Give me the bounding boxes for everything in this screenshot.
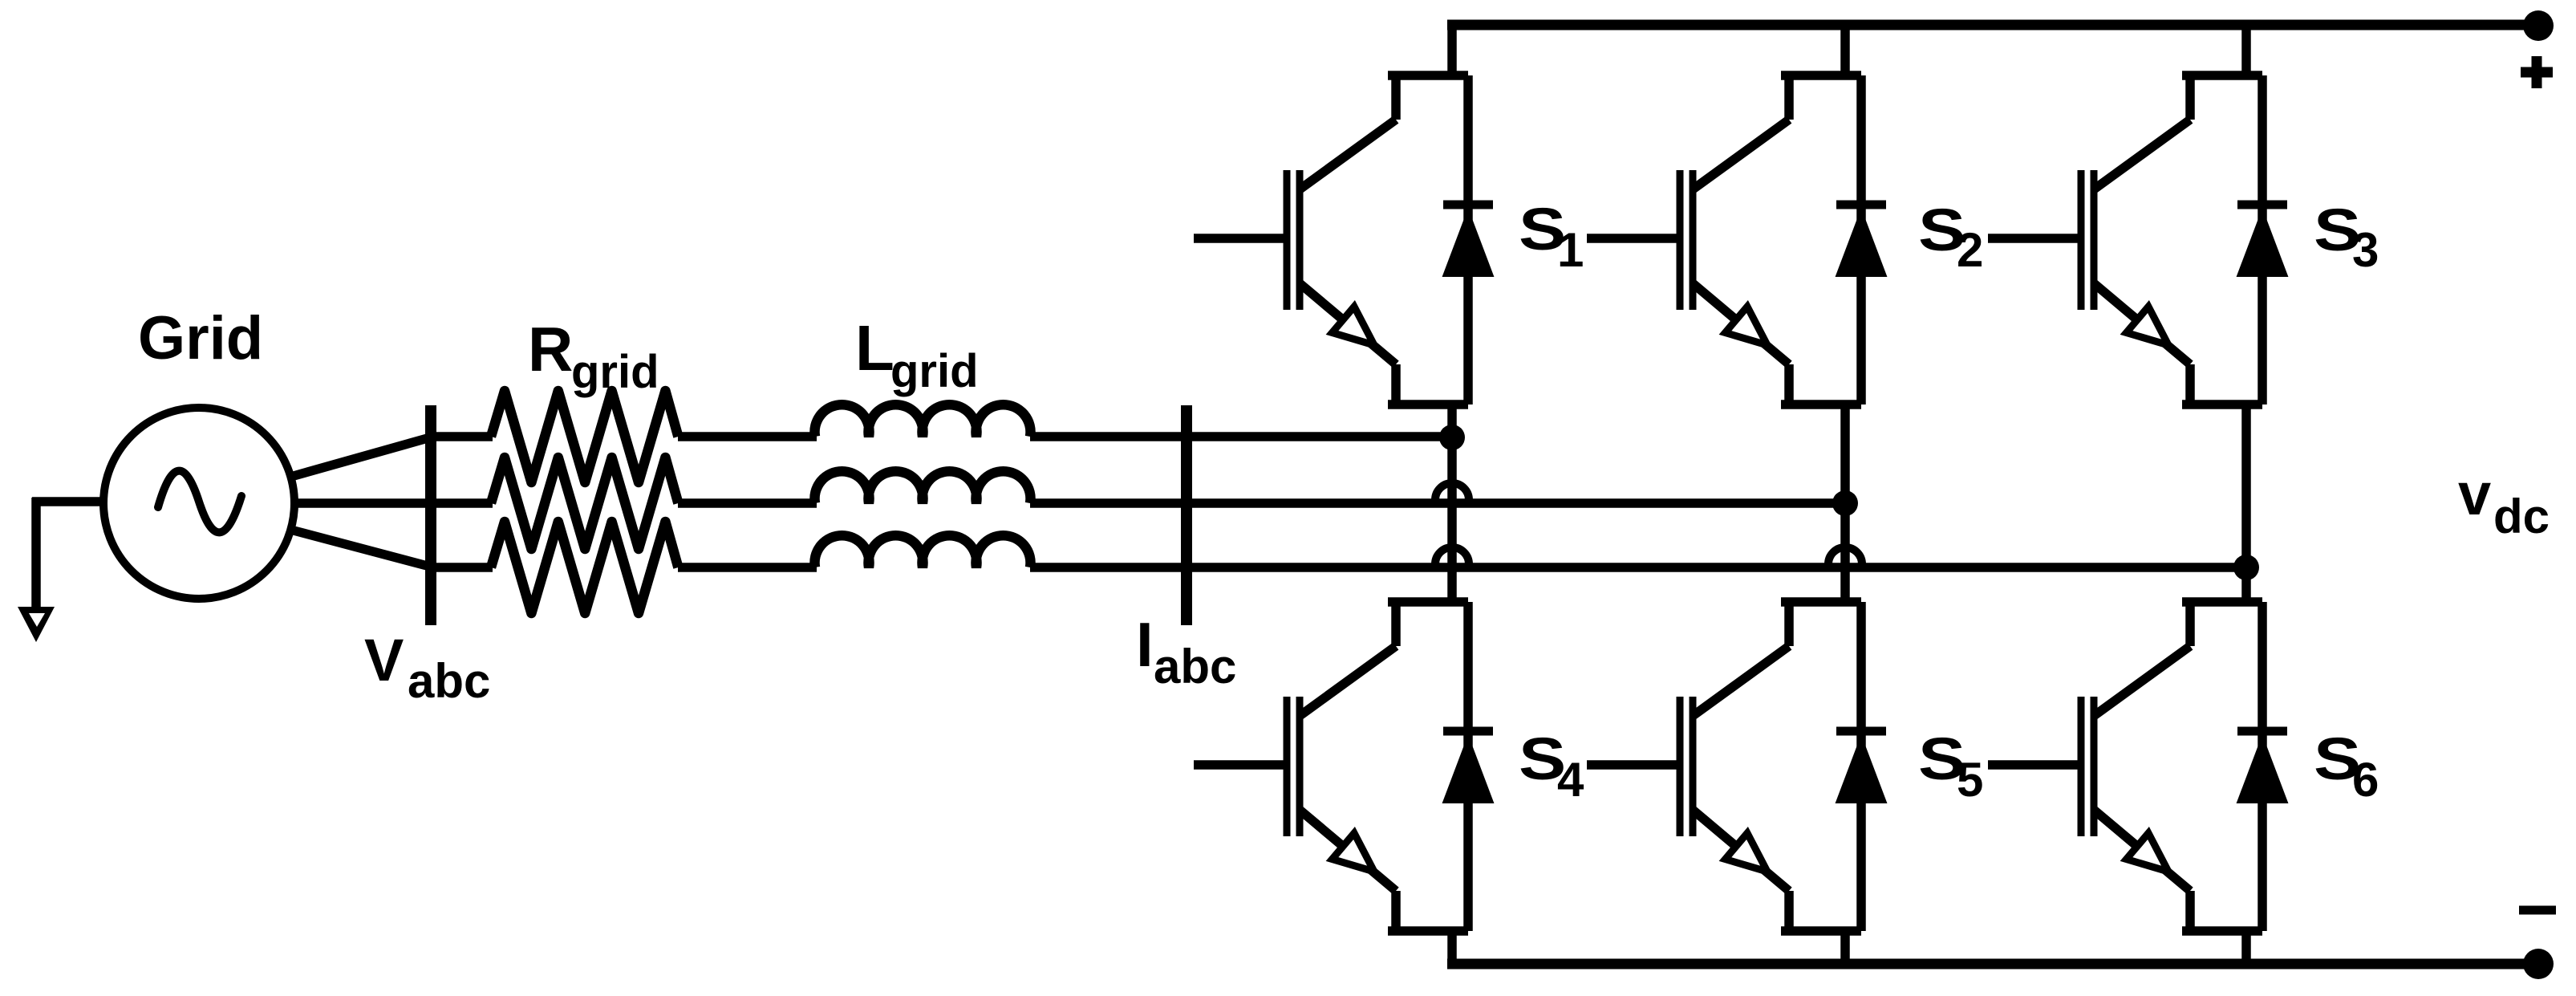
svg-text:R: R (528, 314, 573, 384)
svg-text:dc: dc (2493, 490, 2550, 543)
AC source circle (Grid) (103, 408, 294, 599)
ground arrow (18, 607, 55, 642)
wire hop leg2 over phase c (1828, 547, 1862, 564)
svg-text:grid: grid (571, 346, 659, 398)
wire leg3 node C vertical (2241, 404, 2251, 602)
svg-text:4: 4 (1557, 753, 1584, 807)
stub S5 to DC- (1840, 931, 1850, 968)
svg-text:1: 1 (1557, 223, 1584, 277)
wire phase c resistor to inductor (678, 563, 817, 572)
wire phase a source to Vabc bus (294, 437, 433, 476)
svg-text:5: 5 (1957, 753, 1983, 807)
Vabc bus bar (425, 405, 436, 625)
resistor Rgrid phase a (491, 391, 678, 482)
node C junction dot (2233, 555, 2259, 580)
wire phase b source to Vabc bus (295, 498, 433, 508)
resistor Rgrid phase b (491, 457, 678, 549)
wire phase c inductor to node C (1030, 563, 2246, 572)
svg-text:I: I (1136, 609, 1154, 680)
wire leg1 node A vertical (1447, 404, 1457, 602)
wire hop leg1 over phase b (1435, 483, 1469, 500)
IGBT switch S2 (1587, 75, 1886, 404)
stub S6 to DC- (2241, 931, 2251, 968)
stub S4 to DC- (1447, 931, 1457, 968)
DC+ rail (1447, 20, 2538, 30)
IGBT switch S3 (1988, 75, 2287, 404)
DC- rail (1447, 959, 2538, 970)
inductor Lgrid phase b (814, 471, 1030, 503)
wire phase b inductor to node B (1030, 498, 1845, 508)
wire phase a inductor to node A (1030, 432, 1452, 441)
Iabc bus bar (1181, 405, 1192, 625)
svg-text:abc: abc (408, 654, 490, 708)
svg-text:3: 3 (2352, 223, 2379, 277)
svg-text:6: 6 (2352, 753, 2379, 807)
plus sign (2521, 56, 2553, 88)
inductor Lgrid phase c (814, 535, 1030, 567)
sine wave glyph (158, 471, 241, 533)
svg-text:L: L (855, 312, 895, 384)
svg-text:Grid: Grid (138, 304, 263, 372)
IGBT switch S6 (1988, 602, 2287, 931)
stub DC+ to S2 (1840, 21, 1850, 75)
inductor Lgrid phase a (814, 404, 1030, 437)
IGBT switch S4 (1194, 602, 1493, 931)
stub DC+ to S3 (2241, 21, 2251, 75)
wire phase c bus to resistor (431, 563, 493, 572)
ground wire (32, 498, 103, 608)
wire phase a resistor to inductor (678, 432, 817, 441)
stub DC+ to S1 (1447, 21, 1457, 75)
minus sign (2519, 906, 2556, 915)
node A junction dot (1439, 425, 1465, 450)
svg-text:abc: abc (1154, 640, 1236, 693)
wire hop leg1 over phase c (1435, 547, 1469, 564)
svg-text:2: 2 (1957, 223, 1983, 277)
svg-text:v: v (2458, 461, 2491, 527)
wire phase a bus to resistor (431, 432, 493, 441)
wire phase b bus to resistor (431, 498, 493, 508)
wire phase c source to Vabc bus (294, 531, 433, 567)
svg-text:grid: grid (890, 345, 979, 397)
svg-text:V: V (364, 627, 404, 693)
node B junction dot (1832, 490, 1858, 516)
DC- terminal dot (2523, 949, 2554, 979)
wire phase b resistor to inductor (678, 498, 817, 508)
DC+ terminal dot (2523, 10, 2554, 41)
resistor Rgrid phase c (491, 522, 678, 613)
wire leg2 node B vertical (1840, 404, 1850, 602)
IGBT switch S1 (1194, 75, 1493, 404)
IGBT switch S5 (1587, 602, 1886, 931)
